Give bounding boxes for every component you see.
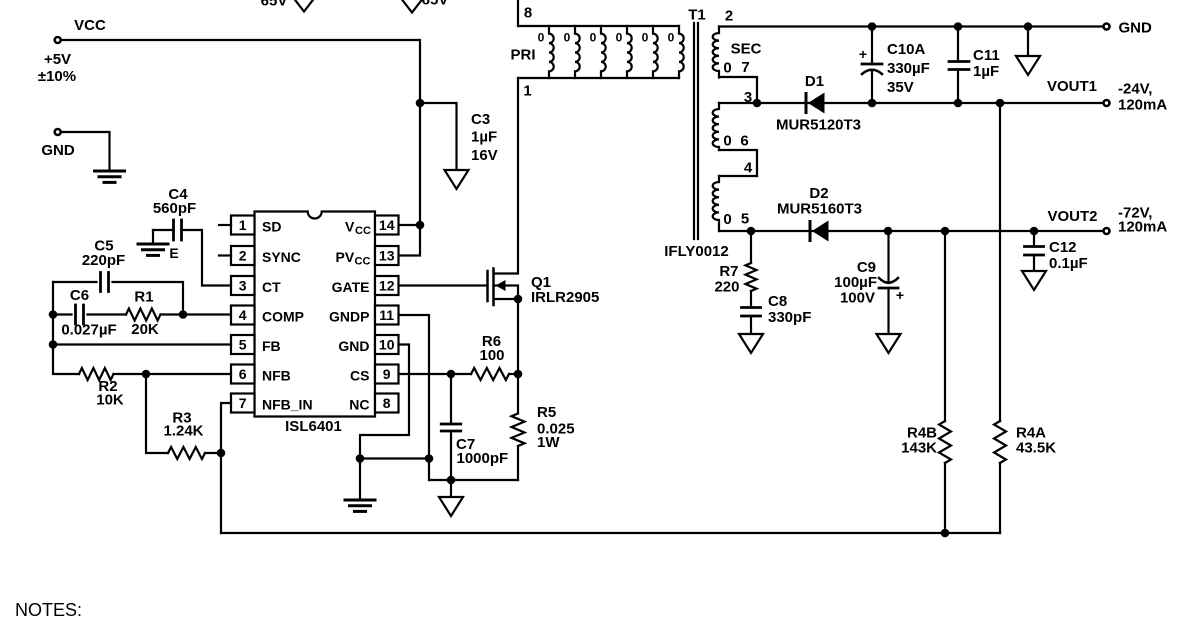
svg-text:0: 0 bbox=[538, 31, 545, 45]
svg-text:1: 1 bbox=[523, 83, 531, 100]
svg-text:560pF: 560pF bbox=[153, 200, 196, 217]
svg-text:CC: CC bbox=[355, 256, 371, 268]
svg-text:0.1µF: 0.1µF bbox=[1049, 255, 1088, 272]
svg-text:FB: FB bbox=[262, 338, 281, 354]
svg-text:E: E bbox=[169, 245, 178, 261]
svg-text:VCC: VCC bbox=[74, 17, 106, 34]
svg-text:14: 14 bbox=[379, 217, 395, 233]
svg-text:5: 5 bbox=[239, 337, 247, 353]
svg-text:0: 0 bbox=[723, 211, 731, 228]
svg-text:7: 7 bbox=[741, 59, 749, 76]
svg-text:6: 6 bbox=[239, 366, 247, 382]
svg-text:2: 2 bbox=[239, 248, 247, 264]
svg-text:PV: PV bbox=[336, 249, 355, 265]
svg-text:NOTES:: NOTES: bbox=[15, 600, 82, 620]
svg-text:120mA: 120mA bbox=[1118, 97, 1167, 114]
svg-text:1µF: 1µF bbox=[973, 63, 999, 80]
svg-text:C12: C12 bbox=[1049, 239, 1077, 256]
svg-text:NFB_IN: NFB_IN bbox=[262, 397, 313, 413]
svg-text:9: 9 bbox=[383, 366, 391, 382]
svg-text:-24V,: -24V, bbox=[1118, 81, 1152, 98]
svg-text:4: 4 bbox=[239, 307, 247, 323]
svg-text:GND: GND bbox=[41, 142, 75, 159]
svg-text:SEC: SEC bbox=[731, 41, 762, 58]
svg-text:65V: 65V bbox=[422, 0, 449, 9]
svg-text:CC: CC bbox=[355, 225, 371, 237]
svg-text:10: 10 bbox=[379, 337, 395, 353]
svg-text:NFB: NFB bbox=[262, 368, 291, 384]
svg-text:R5: R5 bbox=[537, 404, 556, 421]
svg-text:MUR5120T3: MUR5120T3 bbox=[776, 117, 861, 134]
svg-text:CT: CT bbox=[262, 279, 281, 295]
svg-text:D1: D1 bbox=[805, 73, 824, 90]
svg-text:0.027µF: 0.027µF bbox=[61, 322, 116, 339]
svg-text:12: 12 bbox=[379, 278, 395, 294]
svg-text:C11: C11 bbox=[973, 47, 1000, 64]
svg-text:100V: 100V bbox=[840, 290, 875, 307]
svg-text:+: + bbox=[859, 46, 867, 62]
svg-text:SD: SD bbox=[262, 219, 281, 235]
svg-text:0: 0 bbox=[723, 133, 731, 150]
svg-text:C3: C3 bbox=[471, 111, 490, 128]
svg-text:120mA: 120mA bbox=[1118, 219, 1167, 236]
svg-text:+: + bbox=[896, 287, 904, 303]
svg-text:±10%: ±10% bbox=[38, 68, 76, 85]
svg-text:D2: D2 bbox=[809, 185, 828, 202]
svg-text:11: 11 bbox=[379, 307, 394, 323]
svg-text:2: 2 bbox=[725, 8, 733, 25]
svg-text:220: 220 bbox=[714, 279, 739, 296]
svg-text:3: 3 bbox=[744, 89, 752, 106]
svg-text:1µF: 1µF bbox=[471, 129, 497, 146]
svg-text:20K: 20K bbox=[131, 321, 159, 338]
svg-text:0: 0 bbox=[668, 31, 675, 45]
svg-text:C10A: C10A bbox=[887, 41, 926, 58]
svg-text:GATE: GATE bbox=[332, 279, 370, 295]
svg-text:GND: GND bbox=[338, 338, 369, 354]
svg-text:GNDP: GNDP bbox=[329, 309, 369, 325]
svg-text:330pF: 330pF bbox=[768, 309, 811, 326]
svg-text:V: V bbox=[345, 219, 355, 235]
svg-text:100: 100 bbox=[479, 347, 504, 364]
svg-text:VOUT2: VOUT2 bbox=[1047, 208, 1097, 225]
svg-text:T1: T1 bbox=[688, 7, 706, 24]
svg-text:0: 0 bbox=[723, 60, 731, 77]
svg-text:0: 0 bbox=[564, 31, 571, 45]
svg-text:6: 6 bbox=[740, 133, 748, 150]
svg-text:5: 5 bbox=[741, 211, 749, 228]
svg-text:65V: 65V bbox=[261, 0, 288, 10]
svg-text:R7: R7 bbox=[719, 263, 738, 280]
svg-text:0: 0 bbox=[616, 31, 623, 45]
svg-text:8: 8 bbox=[524, 5, 532, 22]
svg-text:7: 7 bbox=[239, 395, 247, 411]
svg-text:43.5K: 43.5K bbox=[1016, 440, 1056, 457]
svg-text:13: 13 bbox=[379, 248, 395, 264]
svg-text:0: 0 bbox=[642, 31, 649, 45]
svg-text:10K: 10K bbox=[96, 392, 124, 409]
svg-text:IFLY0012: IFLY0012 bbox=[664, 243, 729, 260]
svg-text:COMP: COMP bbox=[262, 309, 304, 325]
svg-text:C6: C6 bbox=[70, 287, 89, 304]
svg-text:100µF: 100µF bbox=[834, 274, 877, 291]
svg-text:35V: 35V bbox=[887, 79, 914, 96]
svg-text:NC: NC bbox=[349, 397, 369, 413]
svg-text:ISL6401: ISL6401 bbox=[285, 418, 342, 435]
svg-text:16V: 16V bbox=[471, 147, 498, 164]
svg-text:CS: CS bbox=[350, 368, 369, 384]
svg-text:143K: 143K bbox=[901, 440, 937, 457]
svg-text:220pF: 220pF bbox=[82, 252, 125, 269]
svg-text:+5V: +5V bbox=[44, 51, 71, 68]
svg-text:MUR5160T3: MUR5160T3 bbox=[777, 201, 862, 218]
svg-text:GND: GND bbox=[1119, 20, 1153, 37]
svg-text:1000pF: 1000pF bbox=[457, 450, 509, 467]
svg-text:0: 0 bbox=[590, 31, 597, 45]
svg-text:PRI: PRI bbox=[510, 47, 535, 64]
svg-text:1.24K: 1.24K bbox=[163, 423, 203, 440]
svg-text:1: 1 bbox=[239, 217, 247, 233]
svg-text:R1: R1 bbox=[134, 289, 153, 306]
svg-text:VOUT1: VOUT1 bbox=[1047, 78, 1097, 95]
svg-text:1W: 1W bbox=[537, 434, 560, 451]
svg-text:SYNC: SYNC bbox=[262, 249, 301, 265]
svg-text:8: 8 bbox=[383, 395, 391, 411]
svg-text:C8: C8 bbox=[768, 293, 787, 310]
svg-text:4: 4 bbox=[744, 160, 753, 177]
svg-text:330µF: 330µF bbox=[887, 60, 930, 77]
svg-text:IRLR2905: IRLR2905 bbox=[531, 289, 599, 306]
svg-text:3: 3 bbox=[239, 278, 247, 294]
